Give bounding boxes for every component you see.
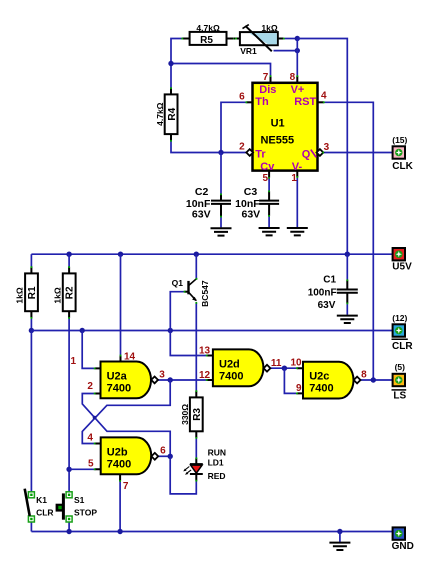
svg-text:C2: C2 — [195, 186, 209, 198]
ground at bottom rail — [329, 543, 350, 550]
svg-text:7400: 7400 — [107, 458, 131, 470]
svg-text:V-: V- — [292, 161, 303, 173]
wire Q1 base to CLR row — [170, 292, 184, 331]
wire VR1 wiper to V+ column — [274, 50, 298, 52]
U1 pin 8 stub — [296, 76, 298, 83]
capacitor C3 — [259, 190, 279, 216]
node U2a output 3 — [168, 377, 173, 382]
terminal GND — [393, 527, 405, 539]
switch S1 — [56, 492, 73, 522]
wire C1 to ground — [346, 303, 348, 315]
wire R5 right to VR1 left — [228, 38, 239, 40]
svg-text:8: 8 — [361, 370, 367, 381]
wire S1 bottom to ground rail — [68, 522, 70, 531]
wire U2d output 11 to U2c pin 10 — [271, 367, 297, 369]
svg-text:RED: RED — [208, 471, 226, 481]
wire CLR row to U2d pin 13 — [170, 331, 206, 356]
terminal CLK — [393, 146, 405, 158]
switch K1 — [25, 489, 35, 522]
node CLR row left — [29, 328, 34, 333]
wire junction to R4 top — [170, 64, 172, 88]
svg-text:4.7kΩ: 4.7kΩ — [155, 102, 165, 126]
svg-text:1kΩ: 1kΩ — [15, 287, 25, 303]
wire output 6 to LED cathode — [170, 456, 196, 494]
wire R1 bottom to CLR node — [30, 318, 32, 331]
svg-text:Th: Th — [255, 96, 269, 108]
node R5/R4/Dis junction — [168, 61, 173, 66]
wire ground rail stub to ground symbol — [339, 532, 341, 542]
overline for LS — [392, 389, 407, 391]
svg-text:4.7kΩ: 4.7kΩ — [196, 23, 220, 33]
wire U5V rail — [31, 253, 392, 255]
wire VR1 right terminal to V+ column — [284, 38, 297, 40]
U1 pin 3 Q diamond — [317, 149, 324, 156]
svg-text:(12): (12) — [392, 313, 407, 323]
svg-text:7400: 7400 — [219, 370, 243, 382]
ground under C3 — [259, 228, 280, 235]
svg-text:63V: 63V — [242, 209, 261, 221]
node VR1 wiper junction — [295, 48, 300, 53]
svg-text:5: 5 — [88, 458, 94, 469]
svg-text:(15): (15) — [392, 135, 407, 145]
wire U2b output 6 cross-couple to U2a pin 2 — [82, 394, 170, 457]
svg-text:2: 2 — [239, 142, 245, 153]
svg-text:NE555: NE555 — [260, 134, 294, 146]
svg-text:R3: R3 — [192, 408, 203, 421]
svg-text:8: 8 — [290, 72, 296, 83]
ground under U1 pin 1 — [287, 228, 308, 235]
svg-text:U5V: U5V — [392, 262, 412, 273]
U1 pin 5 stub — [268, 171, 270, 178]
svg-text:S1: S1 — [74, 495, 85, 505]
NAND gate U2a 7400 — [94, 355, 158, 399]
svg-text:7: 7 — [123, 481, 129, 492]
resistor R4 — [165, 87, 178, 141]
U1 pin 4 stub — [318, 101, 324, 103]
wire U1 pin 3 Q to CLK terminal — [323, 152, 393, 154]
wire C2 to ground — [220, 217, 222, 228]
svg-text:CLK: CLK — [392, 161, 413, 172]
svg-text:U2d: U2d — [219, 358, 240, 370]
wire U1 pin 6 Th down to Tr junction — [221, 102, 246, 152]
node ground rail / ground symbol — [337, 529, 342, 534]
node ground rail / S1 — [66, 529, 71, 534]
svg-text:C1: C1 — [323, 274, 336, 285]
wire Q1 collector feed — [195, 254, 197, 279]
wire U2a pin 14 VCC — [120, 254, 122, 355]
wire U2a output 3 to U2d pin 12 — [158, 379, 207, 381]
NAND gate U2b 7400 — [94, 437, 159, 481]
wire U1 pin5 Cv to C3 — [268, 178, 270, 191]
svg-text:3: 3 — [324, 142, 330, 153]
svg-text:1: 1 — [291, 173, 297, 184]
svg-text:R1: R1 — [27, 286, 38, 299]
svg-text:Cv: Cv — [260, 161, 275, 173]
wire R2 top lead — [68, 254, 70, 267]
capacitor C2 — [211, 193, 231, 217]
node R2 / U2b pin5 / S1 — [66, 467, 71, 472]
svg-text:7400: 7400 — [309, 383, 333, 395]
wire left rail down to K1 — [30, 331, 32, 492]
svg-text:U2c: U2c — [309, 371, 329, 383]
node U5V rail / U2a pin14 — [118, 252, 123, 257]
svg-text:12: 12 — [199, 370, 211, 381]
svg-text:4: 4 — [321, 91, 327, 102]
wire U2b pin 5 — [69, 468, 95, 470]
IC U1 NE555 body — [253, 83, 318, 171]
svg-text:Q: Q — [302, 148, 311, 160]
wire R4 bottom to Tr row — [171, 140, 246, 152]
wire output 3 cross-couple to U2b pin 4 — [82, 380, 170, 444]
svg-text:4: 4 — [87, 433, 93, 444]
node LS / RST — [371, 377, 376, 382]
ground under C1 — [337, 316, 358, 323]
wire U1 pin 4 RST to LS column — [324, 102, 374, 380]
wire top route V+ to U5V rail — [297, 39, 347, 255]
svg-text:U1: U1 — [271, 118, 285, 130]
wire C1 top feed — [346, 254, 348, 280]
svg-text:100nF: 100nF — [308, 287, 337, 298]
node U5V rail / Q1 collector — [194, 252, 199, 257]
terminal CLR — [393, 324, 405, 336]
svg-text:R5: R5 — [200, 35, 213, 46]
node CLR row / Q1 base / U2d pin13 — [168, 328, 173, 333]
node U2b output 6 — [168, 454, 173, 459]
svg-text:STOP: STOP — [74, 507, 97, 517]
transistor Q1 — [184, 278, 198, 304]
NAND gate U2d 7400 — [206, 349, 271, 386]
wire U2c output 8 to LS terminal — [361, 379, 393, 381]
wire ground rail — [31, 531, 392, 533]
node Th/Tr/C2 junction — [218, 150, 223, 155]
svg-text:9: 9 — [296, 383, 302, 394]
ground under C2 — [211, 228, 232, 235]
U1 pin 1 stub — [296, 171, 298, 177]
svg-text:BC547: BC547 — [200, 280, 210, 307]
node VR1 top junction — [295, 36, 300, 41]
svg-text:330Ω: 330Ω — [180, 404, 190, 425]
wire U5V rail corner to R1 top — [30, 254, 32, 267]
node U5V rail / R2 — [66, 252, 71, 257]
wire Q1 emitter to R3 top — [195, 303, 197, 391]
wire output 11 to U2c pin 9 — [284, 368, 297, 393]
svg-text:2: 2 — [87, 381, 93, 392]
wire junction down to C2 — [220, 153, 222, 195]
svg-text:13: 13 — [199, 346, 211, 357]
svg-text:Q1: Q1 — [172, 278, 184, 288]
wire C3 to ground — [268, 216, 270, 227]
svg-text:RUN: RUN — [208, 447, 226, 457]
wire U2a pin 1 from CLR row — [82, 331, 94, 369]
svg-text:10: 10 — [290, 357, 302, 368]
svg-text:Tr: Tr — [255, 148, 266, 160]
svg-text:GND: GND — [392, 541, 414, 552]
svg-text:7400: 7400 — [107, 382, 131, 394]
svg-text:1kΩ: 1kΩ — [261, 23, 277, 33]
svg-text:V+: V+ — [291, 84, 305, 96]
svg-text:6: 6 — [239, 91, 245, 102]
node ground rail / U2b pin7 — [117, 529, 122, 534]
wire R5 left lead to Dis/R4 junction — [171, 39, 189, 64]
svg-text:Dis: Dis — [259, 84, 276, 96]
wire V+ column down to U1 pin 8 — [296, 39, 298, 77]
resistor R1 — [25, 266, 38, 319]
svg-text:14: 14 — [124, 351, 136, 362]
svg-text:U2b: U2b — [107, 446, 128, 458]
node cross-over blob — [93, 416, 97, 420]
NAND gate U2c 7400 — [296, 362, 361, 399]
svg-text:3: 3 — [159, 370, 165, 381]
LED LD1 — [183, 457, 203, 481]
wire junction to U1 pin 7 Dis — [171, 64, 271, 77]
svg-text:C3: C3 — [244, 186, 258, 198]
overline for CLR — [392, 338, 408, 340]
svg-text:63V: 63V — [192, 209, 211, 221]
resistor R3 — [190, 390, 203, 439]
svg-text:(5): (5) — [395, 362, 406, 372]
wire R2 bottom to S1 — [68, 318, 70, 492]
svg-text:RST: RST — [294, 96, 316, 108]
U1 pin 2 Tr diamond — [246, 149, 253, 156]
svg-text:6: 6 — [160, 446, 166, 457]
svg-text:VR1: VR1 — [240, 46, 257, 56]
potentiometer VR1 — [234, 25, 285, 52]
svg-text:5: 5 — [263, 173, 269, 184]
capacitor C1 — [337, 279, 358, 304]
node CLR row / U2a pin1 — [80, 328, 85, 333]
svg-text:CLR: CLR — [36, 507, 53, 517]
resistor R5 — [181, 32, 235, 45]
svg-text:CLR: CLR — [392, 341, 413, 352]
wire U1 pin1 V- to ground — [296, 177, 298, 227]
wire K1 bottom to ground rail — [30, 522, 32, 531]
resistor R2 — [63, 266, 76, 319]
svg-text:63V: 63V — [318, 300, 336, 311]
svg-text:K1: K1 — [36, 495, 47, 505]
svg-text:LD1: LD1 — [208, 458, 224, 468]
svg-text:R4: R4 — [167, 107, 178, 120]
svg-text:7: 7 — [263, 72, 269, 83]
wire CLR row — [31, 330, 392, 332]
svg-text:R2: R2 — [65, 286, 76, 299]
svg-text:LS: LS — [393, 390, 406, 401]
U1 pin 6 stub — [246, 101, 252, 103]
terminal U5V — [393, 248, 405, 260]
U1 pin 7 stub — [270, 76, 272, 83]
wire U2b pin 7 GND — [119, 481, 121, 532]
terminal LS — [393, 374, 405, 386]
node U5V rail / C1 — [345, 252, 350, 257]
wire R3 bottom to LED anode — [195, 438, 197, 458]
wire U2b output 6 node — [158, 455, 170, 457]
svg-text:U2a: U2a — [107, 370, 128, 382]
svg-text:11: 11 — [271, 358, 282, 369]
node U2d output 11 — [282, 366, 287, 371]
svg-text:1: 1 — [70, 356, 76, 367]
svg-text:1kΩ: 1kΩ — [52, 287, 62, 303]
